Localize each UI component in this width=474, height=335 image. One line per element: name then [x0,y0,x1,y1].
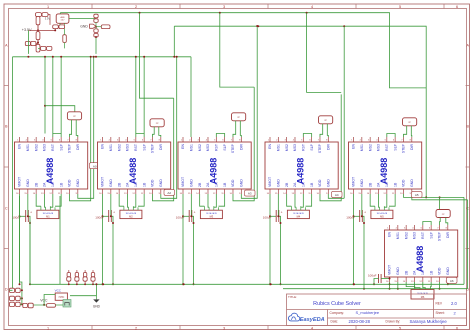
wire [430,282,433,290]
svg-text:100uF: 100uF [346,215,355,219]
svg-text:2: 2 [135,5,137,9]
svg-text:RST: RST [421,231,425,239]
capacitor C6 100uF [183,215,189,217]
resistor R10 [25,41,30,45]
wire right rail [463,197,465,284]
svg-text:6: 6 [456,5,458,9]
svg-text:MS3: MS3 [293,144,297,151]
svg-text:GND: GND [80,25,88,29]
wire [279,216,281,284]
svg-text:MS2: MS2 [198,144,202,151]
svg-text:5: 5 [399,326,401,330]
connector P2 [10,296,15,300]
svg-text:EN: EN [352,144,356,149]
svg-text:SLP: SLP [310,143,314,150]
resistor R1 [36,13,42,17]
svg-text:4: 4 [311,326,313,330]
resistor R13 [67,273,70,277]
svg-text:MS3: MS3 [206,144,210,151]
wire [301,194,304,207]
wire [381,278,389,280]
wire GND riser [328,194,344,198]
connector M2 [120,210,142,218]
header J5 [403,118,417,126]
wire [52,57,54,134]
wire [414,282,420,290]
svg-text:C: C [5,206,8,210]
svg-text:GND: GND [327,179,331,187]
wire [307,13,342,93]
svg-text:1A: 1A [51,182,55,187]
wire VDD to rail [403,194,464,197]
svg-text:3: 3 [223,5,225,9]
svg-text:1A: 1A [302,182,306,187]
svg-text:MS2: MS2 [404,232,408,239]
svg-text:VMOT: VMOT [18,176,22,187]
svg-text:STEP: STEP [151,143,155,153]
wire VMOT riser [182,194,184,284]
wire [446,218,448,226]
title block [287,294,467,326]
svg-text:1B: 1B [429,270,433,275]
svg-text:VDD: VDD [438,267,442,275]
wire [152,127,154,137]
wire RST-SLP tie [303,134,311,138]
svg-text:MS2: MS2 [368,144,372,151]
svg-text:SLP: SLP [393,143,397,150]
svg-text:2A: 2A [413,270,417,275]
power rail +3.5V bus [37,13,39,48]
svg-text:3.3V: 3.3V [45,17,51,21]
wire GND riser [161,57,177,199]
wire [378,194,379,207]
svg-text:1B: 1B [59,182,63,187]
wire VMOT riser [19,194,21,284]
svg-text:MS2: MS2 [285,144,289,151]
wire [220,13,254,87]
svg-text:A3: A3 [248,192,252,196]
svg-text:A4988: A4988 [415,246,425,273]
svg-text:A0: A0 [93,164,97,168]
svg-text:SLP: SLP [142,143,146,150]
connector M5 [371,210,393,218]
svg-text:3: 3 [223,326,225,330]
connector P1 [10,288,15,292]
svg-text:6: 6 [456,326,458,330]
svg-text:2B: 2B [117,182,121,187]
svg-text:2: 2 [135,326,137,330]
wire [45,106,75,112]
wire [36,194,41,206]
svg-text:STEP: STEP [318,143,322,153]
svg-text:1: 1 [47,5,49,9]
svg-text:STEP: STEP [438,231,442,241]
svg-text:2.0: 2.0 [451,301,457,306]
svg-text:VMOT: VMOT [352,176,356,187]
svg-text:GND: GND [26,179,30,187]
svg-text:100uF: 100uF [95,215,104,219]
svg-text:MS2: MS2 [117,144,121,151]
svg-text:GND: GND [396,267,400,275]
svg-text:1117: 1117 [61,20,65,22]
svg-text:1A: 1A [421,270,425,275]
svg-text:2A: 2A [293,182,297,187]
wire VMOT riser [102,194,104,284]
svg-text:100uF: 100uF [263,215,272,219]
svg-text:DIR: DIR [327,144,331,151]
wire [110,194,112,216]
ground GND port [90,24,96,28]
svg-text:S_mukherjee: S_mukherjee [356,310,380,315]
wire [60,57,62,134]
svg-text:D: D [5,287,8,291]
svg-text:RST: RST [134,143,138,151]
svg-text:MS3: MS3 [126,144,130,151]
svg-text:2B: 2B [34,182,38,187]
svg-text:SLP: SLP [59,143,63,150]
wire [200,194,205,206]
wire [59,13,61,14]
svg-text:DIR: DIR [76,144,80,151]
capacitor C5 100uF [103,215,109,217]
svg-text:MS3: MS3 [377,144,381,151]
wire [48,15,50,25]
svg-text:2B: 2B [368,182,372,187]
wire [438,282,440,289]
wire [447,282,449,284]
wire [397,282,399,289]
IC U1 A4988 [15,142,88,189]
wire [208,194,209,207]
resistor R4 [36,32,40,40]
wire GND bottom bus [283,288,468,290]
svg-text:REV: REV [436,301,443,305]
wire [287,194,292,206]
wire [27,30,29,54]
svg-text:A5: A5 [415,193,419,197]
wire [362,216,364,288]
wire [320,124,323,137]
svg-text:A4988: A4988 [128,158,138,185]
wire VDD bus [13,56,192,58]
svg-text:MS1: MS1 [396,232,400,239]
capacitor C4 100uF [20,215,26,217]
voltage regulator U7 [56,14,69,23]
header J1 [67,112,81,120]
svg-text:M5: M5 [380,215,384,219]
svg-text:EN: EN [268,144,272,149]
capacitor C3 [94,29,98,33]
svg-text:2A: 2A [206,182,210,187]
wire [69,120,71,137]
capacitor C8 100uF [354,215,360,217]
svg-text:EN: EN [181,144,185,149]
svg-text:RST: RST [215,143,219,151]
capacitor C9 100uF [378,274,380,283]
wire VMOT input column [20,196,22,304]
svg-text:4: 4 [311,5,313,9]
wire [410,126,413,137]
connector M1 [37,210,59,218]
svg-text:VDD: VDD [402,179,406,187]
svg-text:A4988: A4988 [296,158,306,185]
svg-text:VDD: VDD [231,179,235,187]
resistor R7 [59,25,65,29]
wire [20,297,22,299]
svg-text:VMOT: VMOT [388,264,392,275]
svg-text:A4: A4 [335,193,339,197]
IC U3 A4988 [178,142,251,189]
wire [143,57,145,134]
IC U4 A4988 [265,142,338,189]
svg-text:Saranya Mukherjee: Saranya Mukherjee [410,319,448,324]
wire VDD riser [152,98,173,201]
svg-text:STEP: STEP [231,143,235,153]
svg-text:STEP: STEP [68,143,72,153]
wire [59,23,61,25]
svg-text:1B 1A 2A 2B: 1B 1A 2A 2B [43,212,54,215]
svg-text:GND: GND [277,179,281,187]
svg-text:1B: 1B [142,182,146,187]
wire [133,194,136,207]
resistor R17 [47,304,56,308]
svg-text:DIR: DIR [240,144,244,151]
wire [214,194,217,207]
svg-text:Drawn By:: Drawn By: [386,319,401,323]
svg-text:MS1: MS1 [109,144,113,151]
svg-text:2A: 2A [126,182,130,187]
wire [95,22,97,29]
svg-text:MS3: MS3 [43,144,47,151]
IC U6 A4988 [385,230,458,277]
svg-text:VMOT: VMOT [101,176,105,187]
resistor R8 [41,46,47,50]
header J4 [319,116,333,124]
wire 12V bottom bus [30,221,464,285]
resistor R12 [101,25,110,29]
svg-text:100uF: 100uF [368,273,377,277]
svg-text:2A: 2A [43,182,47,187]
svg-text:SLP: SLP [429,231,433,238]
svg-text:74HC: 74HC [58,297,64,299]
svg-text:EasyEDA: EasyEDA [300,317,325,323]
wire right rail 2 [467,200,469,289]
wire [10,289,13,291]
svg-text:2B: 2B [285,182,289,187]
wire [361,194,363,216]
wire [439,197,441,209]
wire VDD riser [233,87,254,201]
svg-text:TITLE:: TITLE: [288,295,297,299]
wire 3.3V line A [60,13,426,88]
svg-text:AMS: AMS [60,16,65,19]
svg-text:STEP: STEP [402,143,406,153]
resistor R3 [36,17,40,25]
wire logic line B [174,26,426,197]
svg-text:1B 1A 2A 2B: 1B 1A 2A 2B [206,212,217,215]
svg-text:2020-08-28: 2020-08-28 [349,319,371,324]
svg-text:1A: 1A [215,182,219,187]
svg-text:+: + [364,211,366,215]
svg-text:Rubics Cube Solver: Rubics Cube Solver [313,301,361,307]
wire [138,194,144,206]
wire [127,194,128,207]
capacitor C7 100uF [270,215,276,217]
wire [55,194,61,206]
connector M3 [200,210,222,218]
svg-text:RST: RST [51,143,55,151]
wire [95,37,97,54]
svg-text:GND: GND [93,304,101,308]
wire RST-SLP tie [216,134,224,138]
wire GND to rail [412,194,468,200]
wire [70,284,96,295]
svg-text:1B 1A 2A 2B: 1B 1A 2A 2B [377,212,388,215]
wire [403,126,406,137]
svg-text:1B 1A 2A 2B: 1B 1A 2A 2B [293,212,304,215]
IC U2 A4988 [98,142,171,189]
svg-text:EN: EN [18,144,22,149]
connector P4 [23,303,28,307]
svg-text:A4988: A4988 [209,158,219,185]
svg-text:2A: 2A [377,182,381,187]
svg-text:+: + [194,211,196,215]
svg-text:5: 5 [399,5,401,9]
svg-text:M2: M2 [129,215,133,219]
node A4 [332,191,343,197]
wire [240,121,241,137]
wire [173,26,175,57]
wire [44,57,46,134]
wire [119,194,124,206]
svg-text:SLP: SLP [223,143,227,150]
wire VDD riser [69,57,90,201]
resistor R11 [31,41,36,45]
wire GND riser [78,57,94,199]
node A5 [412,192,423,198]
wire [159,127,161,137]
wire RST-SLP tie [53,134,61,138]
wire [233,121,236,137]
wire [27,194,29,216]
svg-text:DIR: DIR [446,232,450,239]
node A6 [447,277,458,283]
wire [277,194,279,216]
wire [406,282,415,290]
svg-text:1A: 1A [385,182,389,187]
svg-text:M3: M3 [210,215,214,219]
wire [327,124,328,137]
wire [64,43,66,49]
wire [295,194,296,207]
wire [64,29,66,35]
resistor R15 [83,273,86,277]
resistor R2 [42,13,48,17]
wire [343,26,345,198]
node A0 [90,163,101,169]
connector P3 [10,302,15,306]
IC U5 A4988 [349,142,422,189]
wire left rail [12,57,14,290]
wire [190,194,192,216]
svg-text:MS1: MS1 [360,144,364,151]
EasyEDA logo [288,313,299,321]
svg-text:GND: GND [240,179,244,187]
resistor R5 [36,44,40,52]
wire [306,194,312,206]
IC U8 [55,293,67,300]
connector M4 [287,210,309,218]
wire VDD riser [320,94,341,200]
svg-text:GND: GND [159,179,163,187]
svg-text:Company:: Company: [330,311,345,315]
push button S1 [63,300,71,308]
svg-text:DIR: DIR [410,144,414,151]
wire RST-SLP tie [387,134,395,138]
svg-text:VCC: VCC [55,289,62,293]
svg-text:1A: 1A [134,182,138,187]
svg-text:EN: EN [388,232,392,237]
svg-text:2B: 2B [198,182,202,187]
wire [38,47,41,49]
svg-text:1B 1A 2A 2B: 1B 1A 2A 2B [126,212,137,215]
wire [111,216,113,284]
wire [76,120,78,137]
svg-text:DIR: DIR [159,144,163,151]
svg-text:A2: A2 [167,191,171,195]
wire [374,279,379,285]
svg-text:100uF: 100uF [176,215,185,219]
wire [28,29,38,31]
wire [140,13,174,99]
svg-text:VMOT: VMOT [181,176,185,187]
svg-text:+: + [30,211,32,215]
svg-text:VDD: VDD [68,179,72,187]
header J2 [150,119,164,127]
resistor R16 [91,273,94,277]
svg-text:M1: M1 [46,215,50,219]
wire [44,194,45,207]
resistor R6 [53,25,59,29]
svg-text:VMOT: VMOT [268,176,272,187]
svg-text:RST: RST [302,143,306,151]
svg-text:MS1: MS1 [277,144,281,151]
wire RST-SLP tie [136,134,144,138]
wire 3.3V output [69,18,96,20]
header J6 [436,210,450,218]
svg-text:VDD: VDD [318,179,322,187]
svg-text:MS1: MS1 [190,144,194,151]
svg-text:1B: 1B [393,182,397,187]
svg-text:GND: GND [109,179,113,187]
wire [190,57,192,137]
svg-text:1: 1 [47,326,49,330]
svg-text:M6: M6 [421,295,425,299]
wire VMOT riser [269,194,271,284]
wire [389,282,391,289]
wire [50,194,53,207]
svg-text:2B: 2B [404,270,408,275]
svg-text:EN: EN [101,144,105,149]
wire GND riser [241,26,257,198]
header J3 [232,113,246,121]
svg-text:MS3: MS3 [413,232,417,239]
svg-text:MS2: MS2 [34,144,38,151]
wire [56,304,64,306]
capacitor C1 [63,35,67,43]
svg-text:+: + [281,211,283,215]
resistor R9 [47,46,52,50]
